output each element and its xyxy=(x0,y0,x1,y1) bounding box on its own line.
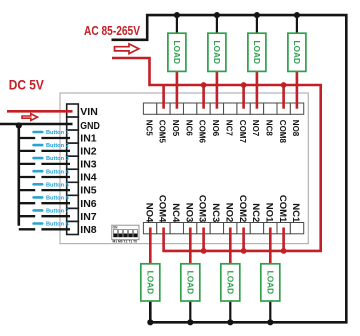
DIP switch S1 xyxy=(112,225,139,243)
wire NO1 to load L8 xyxy=(269,228,272,267)
svg-text:Button 8: Button 8 xyxy=(46,222,69,228)
junction red bottom bus at COM2 xyxy=(241,248,247,254)
svg-text:COM7: COM7 xyxy=(238,120,247,144)
wire NO5 to load L1 xyxy=(176,71,179,109)
load L1 xyxy=(168,33,186,71)
svg-text:COM2: COM2 xyxy=(237,195,248,222)
svg-text:NC5: NC5 xyxy=(144,120,153,137)
wire DC 5V plus to VIN xyxy=(7,110,73,113)
svg-text:LOAD: LOAD xyxy=(185,271,195,295)
svg-text:NO8: NO8 xyxy=(291,120,300,137)
svg-text:COM6: COM6 xyxy=(198,120,207,144)
svg-text:NC4: NC4 xyxy=(170,203,181,223)
button B4 xyxy=(19,169,70,177)
pin header bottom row NO4..NC1 xyxy=(143,223,303,234)
junction red bottom bus at COM3 xyxy=(201,248,207,254)
junction red bottom bus at COM1 xyxy=(281,248,287,254)
wire load L1 top drop xyxy=(176,15,178,34)
button B1 xyxy=(19,130,70,138)
wire load L2 top drop xyxy=(216,15,218,34)
svg-text:Button 3: Button 3 xyxy=(46,156,69,162)
svg-text:Button 5: Button 5 xyxy=(46,182,69,188)
svg-text:LOAD: LOAD xyxy=(212,40,222,64)
svg-text:NC3: NC3 xyxy=(210,203,221,222)
wire COM7 branch xyxy=(242,85,245,109)
load L4 xyxy=(288,33,306,71)
wire load L6 bottom drop xyxy=(229,301,231,322)
wire NO8 to load L4 xyxy=(296,71,299,109)
svg-text:LOAD: LOAD xyxy=(172,40,182,64)
wire COM3 branch xyxy=(202,228,205,251)
board module outline xyxy=(60,93,308,244)
svg-text:LOAD: LOAD xyxy=(265,271,275,295)
svg-text:IN1: IN1 xyxy=(80,132,97,144)
svg-text:IN2: IN2 xyxy=(80,146,97,158)
load L8 xyxy=(261,264,280,301)
pin header top row NC5..NO8 xyxy=(143,103,303,114)
wire DC 5V minus to GND xyxy=(0,123,73,126)
button B3 xyxy=(19,156,70,164)
button B2 xyxy=(19,143,70,151)
wire COM2 branch xyxy=(242,228,245,251)
wire load L7 bottom drop xyxy=(269,301,271,322)
svg-text:VIN: VIN xyxy=(80,106,98,118)
svg-text:ON: ON xyxy=(113,226,118,230)
button B5 xyxy=(19,182,70,190)
button B7 xyxy=(19,209,70,217)
load L2 xyxy=(208,33,226,71)
load L6 xyxy=(181,264,200,301)
wire AC live red: source lead, top COM bus, right drop, bottom COM bus xyxy=(112,58,321,251)
svg-text:COM8: COM8 xyxy=(278,120,287,144)
load L7 xyxy=(221,264,240,301)
junction GND bus xyxy=(16,122,22,128)
junction black bottom bus at L8 xyxy=(267,319,273,325)
wire load L3 top drop xyxy=(256,15,258,34)
svg-text:NO6: NO6 xyxy=(211,120,220,137)
svg-text:Button 7: Button 7 xyxy=(46,209,69,215)
svg-text:COM1: COM1 xyxy=(277,195,288,223)
junction red top bus at COM7 xyxy=(241,82,247,88)
svg-text:NC7: NC7 xyxy=(224,120,233,137)
svg-text:NC8: NC8 xyxy=(265,120,274,137)
svg-text:NO7: NO7 xyxy=(251,120,260,137)
wire load L5 bottom drop xyxy=(189,301,191,322)
svg-text:IN7: IN7 xyxy=(80,211,97,223)
svg-text:LOAD: LOAD xyxy=(292,40,302,64)
wire NO7 to load L3 xyxy=(256,71,259,109)
svg-text:Button 6: Button 6 xyxy=(46,196,69,202)
svg-text:NO3: NO3 xyxy=(183,203,194,223)
wire COM8 branch xyxy=(282,85,285,109)
junction red top bus at COM6 xyxy=(201,82,207,88)
svg-text:LOAD: LOAD xyxy=(145,271,155,295)
junction black bottom bus at L7 xyxy=(227,319,233,325)
junction black top bus at L1 xyxy=(174,12,180,18)
svg-text:AC 85-265V: AC 85-265V xyxy=(84,23,140,38)
wire NO4 to load L5 xyxy=(149,228,152,267)
svg-text:NC1: NC1 xyxy=(290,203,301,223)
junction black bottom bus at L6 xyxy=(187,319,193,325)
svg-text:NO4: NO4 xyxy=(143,203,154,223)
wire AC neutral black: source lead, top bus, right drop, bottom bus xyxy=(112,15,347,322)
svg-text:COM5: COM5 xyxy=(158,120,167,144)
wire button common bus xyxy=(17,124,20,226)
svg-text:NC6: NC6 xyxy=(184,120,193,137)
svg-text:NO5: NO5 xyxy=(171,120,180,137)
button B8 xyxy=(19,222,70,230)
load L3 xyxy=(248,33,266,71)
svg-text:IN4: IN4 xyxy=(80,172,97,184)
wire COM1 branch xyxy=(282,228,285,251)
svg-text:IN5: IN5 xyxy=(80,185,97,197)
junction black bottom bus at L5 xyxy=(147,319,153,325)
wire NO6 to load L2 xyxy=(216,71,219,109)
wire NO3 to load L6 xyxy=(189,228,192,267)
svg-text:IN8: IN8 xyxy=(80,224,97,236)
arrow DC direction xyxy=(22,114,38,121)
wire NO2 to load L7 xyxy=(229,228,232,267)
svg-text:COM3: COM3 xyxy=(197,195,208,222)
junction red top bus at COM8 xyxy=(281,82,287,88)
svg-text:DC 5V: DC 5V xyxy=(9,78,45,93)
svg-text:NO2: NO2 xyxy=(223,203,234,223)
svg-text:M1 M0 T2 T1 T0: M1 M0 T2 T1 T0 xyxy=(113,240,138,244)
wire load L4 top drop xyxy=(296,15,298,34)
junction black top bus at L4 xyxy=(294,12,300,18)
svg-text:LOAD: LOAD xyxy=(252,40,262,64)
svg-text:Button 2: Button 2 xyxy=(46,143,69,149)
pin header left column VIN..IN8 xyxy=(67,104,79,235)
arrow AC direction xyxy=(115,44,139,54)
svg-text:NC2: NC2 xyxy=(250,203,261,222)
button B6 xyxy=(19,196,70,204)
svg-text:Button 4: Button 4 xyxy=(46,169,70,175)
svg-text:NO1: NO1 xyxy=(264,203,275,223)
junction black top bus at L2 xyxy=(214,12,220,18)
wire COM5 branch xyxy=(162,85,165,109)
svg-text:IN6: IN6 xyxy=(80,198,97,210)
svg-text:LOAD: LOAD xyxy=(225,271,235,295)
junction black top bus at L3 xyxy=(254,12,260,18)
svg-text:GND: GND xyxy=(80,120,100,132)
svg-text:COM4: COM4 xyxy=(157,195,168,223)
svg-text:Button 1: Button 1 xyxy=(46,130,69,136)
load L5 xyxy=(141,264,160,301)
wire COM6 branch xyxy=(202,85,205,109)
svg-text:IN3: IN3 xyxy=(80,159,97,171)
